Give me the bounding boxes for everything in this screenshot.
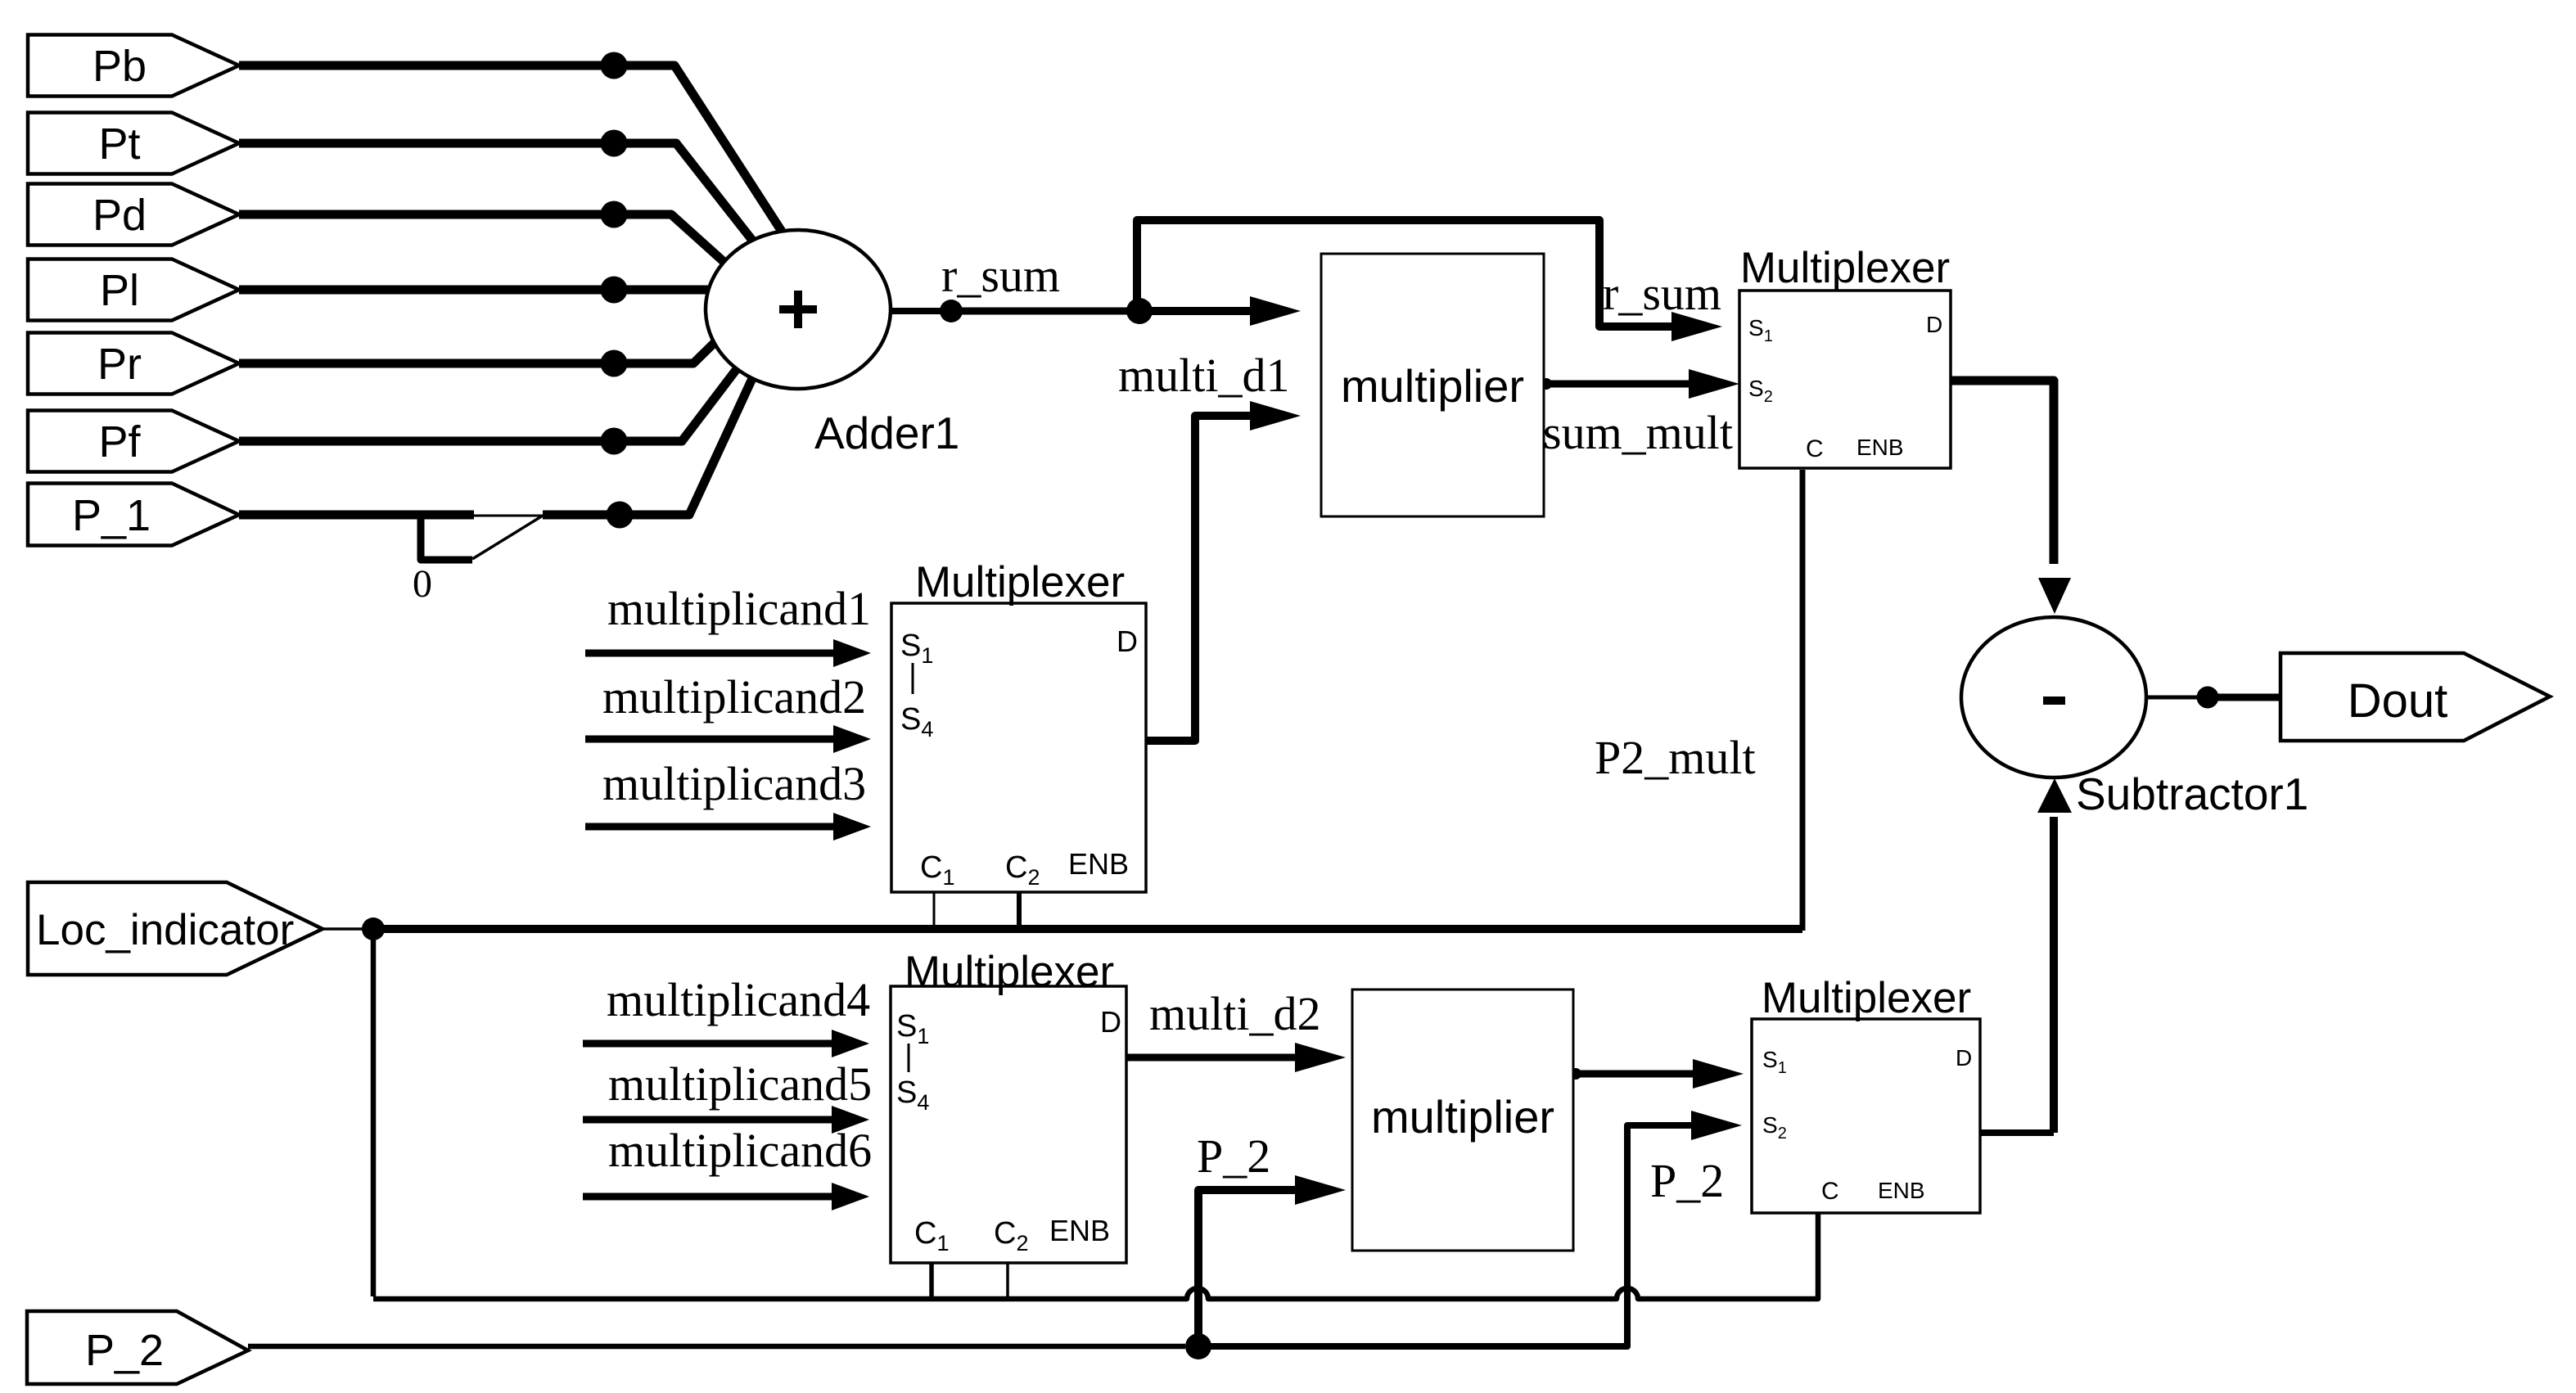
svg-text:D: D	[1926, 312, 1942, 337]
svg-text:ENB: ENB	[1878, 1178, 1925, 1203]
svg-text:Adder1: Adder1	[814, 408, 959, 458]
svg-text:Multiplexer: Multiplexer	[1740, 244, 1950, 292]
svg-text:Dout: Dout	[2348, 674, 2448, 728]
svg-text:ENB: ENB	[1049, 1214, 1110, 1247]
svg-text:P_2: P_2	[1650, 1154, 1724, 1207]
svg-text:multiplicand3: multiplicand3	[602, 757, 866, 810]
svg-text:P_1: P_1	[72, 491, 151, 540]
svg-text:multiplicand2: multiplicand2	[602, 670, 866, 724]
svg-text:Pf: Pf	[98, 417, 141, 467]
svg-text:Multiplexer: Multiplexer	[905, 948, 1114, 996]
svg-text:D: D	[1100, 1005, 1121, 1039]
svg-text:multi_d1: multi_d1	[1118, 349, 1289, 402]
svg-text:multiplier: multiplier	[1371, 1091, 1554, 1143]
svg-text:ENB: ENB	[1856, 435, 1904, 460]
svg-text:P_2: P_2	[1197, 1129, 1270, 1183]
svg-text:multiplier: multiplier	[1341, 360, 1524, 412]
svg-text:r_sum: r_sum	[1603, 267, 1721, 320]
svg-text:D: D	[1956, 1045, 1972, 1071]
svg-text:D: D	[1117, 624, 1138, 658]
svg-text:C: C	[1806, 435, 1824, 462]
svg-text:ENB: ENB	[1068, 847, 1129, 881]
svg-text:Pb: Pb	[92, 42, 147, 91]
svg-text:Subtractor1: Subtractor1	[2076, 769, 2308, 819]
svg-text:Pt: Pt	[98, 119, 140, 169]
svg-text:multiplicand5: multiplicand5	[608, 1057, 872, 1111]
svg-text:Multiplexer: Multiplexer	[1762, 974, 1971, 1022]
svg-text:multiplicand1: multiplicand1	[607, 582, 871, 635]
svg-text:multi_d2: multi_d2	[1149, 987, 1320, 1040]
svg-text:Pr: Pr	[97, 340, 142, 389]
svg-text:C: C	[1821, 1178, 1839, 1205]
svg-text:multiplicand4: multiplicand4	[607, 973, 870, 1026]
svg-text:Loc_indicator: Loc_indicator	[36, 906, 294, 954]
svg-text:sum_mult: sum_mult	[1543, 406, 1733, 459]
svg-text:Multiplexer: Multiplexer	[915, 558, 1125, 606]
svg-text:0: 0	[413, 562, 432, 606]
svg-text:Pd: Pd	[92, 191, 147, 240]
svg-text:P2_mult: P2_mult	[1595, 731, 1756, 784]
svg-text:multiplicand6: multiplicand6	[608, 1124, 872, 1177]
svg-text:Pl: Pl	[100, 266, 139, 315]
svg-text:r_sum: r_sum	[941, 249, 1060, 302]
svg-text:P_2: P_2	[85, 1326, 164, 1375]
